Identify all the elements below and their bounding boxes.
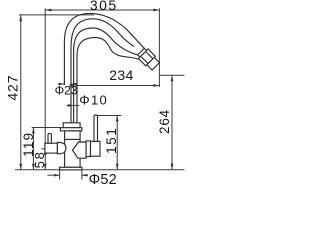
dim phi52 right segment [82, 174, 88, 176]
ext line left 305 and dim 58 line [44, 8, 46, 169]
aerator facet line 2 [141, 57, 148, 64]
dim 427 line [20, 15, 22, 169]
right ring [86, 141, 90, 157]
ext line right 305 234 [158, 8, 160, 87]
faucet spout gooseneck [64, 13, 144, 122]
leader phi10 [67, 104, 80, 106]
arrow 305 right [153, 9, 159, 12]
arrow 305 left [45, 9, 51, 12]
ext line phi52 left [59, 170, 61, 179]
arrow 427 down [19, 164, 22, 170]
ext line top 427 [19, 14, 94, 16]
ext line 58 [42, 148, 47, 150]
nozzle aerator assembly [138, 48, 160, 70]
arrow 427 up [19, 15, 22, 21]
svg-text:305: 305 [90, 0, 118, 13]
svg-text:Φ10: Φ10 [79, 93, 108, 108]
arrow 234 right [153, 84, 159, 87]
arrow phi23 right pointing left [71, 83, 77, 86]
svg-text:151: 151 [104, 127, 119, 154]
body column [65, 131, 81, 167]
spout outer edge [64, 13, 144, 85]
lever handle bar [94, 115, 98, 141]
arrow phi23 left pointing right [59, 83, 65, 86]
arrowheads [19, 9, 173, 177]
arrow phi52 left pointing right [54, 174, 60, 177]
arrow 264 down [171, 164, 174, 170]
svg-text:427: 427 [5, 75, 21, 101]
small tube arc [77, 37, 139, 122]
svg-text:Φ52: Φ52 [89, 172, 117, 185]
ext line 151 [94, 115, 121, 117]
left outlet cylinder [45, 143, 57, 153]
joint collar [138, 48, 147, 57]
left knob [48, 134, 51, 144]
dim 305 line [45, 9, 159, 11]
arrow 151 up [116, 116, 119, 122]
svg-text:Φ23: Φ23 [55, 84, 78, 98]
body seam line [65, 138, 81, 140]
mounting nut flange [63, 123, 80, 128]
faucet body [45, 115, 100, 170]
counter reference line [15, 169, 185, 171]
leader phi23 right [71, 83, 78, 85]
aerator facet line 1 [146, 52, 153, 59]
arrow 151 down [116, 164, 119, 170]
right valve wedge [73, 142, 87, 158]
dimension texts [5, 0, 173, 188]
leader phi23 left [58, 83, 65, 85]
dim 119 line [32, 128, 34, 170]
arrow 119 down [32, 164, 35, 170]
base [60, 167, 82, 170]
dim 151 line [116, 116, 118, 170]
nozzle tip [147, 57, 160, 70]
arrow 264 up [171, 75, 174, 81]
arrow phi52 right pointing left [82, 174, 88, 177]
arrow 234 left [70, 84, 76, 87]
spout inner edge [74, 28, 138, 122]
dim phi52 left segment [48, 174, 60, 176]
spout inner shading arc [71, 19, 134, 123]
left D cap boss [57, 143, 66, 154]
collar [60, 128, 82, 131]
arrow 119 up [32, 128, 35, 134]
arrow 58 down [44, 164, 47, 170]
arrow phi10 pointing right [68, 104, 74, 107]
ext line 264 [160, 74, 185, 76]
dim 234 line [76, 85, 160, 87]
svg-text:264: 264 [157, 109, 172, 134]
right housing [91, 141, 101, 156]
svg-text:234: 234 [109, 67, 133, 83]
arrow 58 up [44, 149, 47, 155]
svg-text:58: 58 [32, 150, 47, 168]
ext line phi52 right [81, 170, 83, 179]
ext line 119 [32, 127, 61, 129]
dim 264 line [171, 75, 173, 170]
aerator body [139, 49, 156, 66]
